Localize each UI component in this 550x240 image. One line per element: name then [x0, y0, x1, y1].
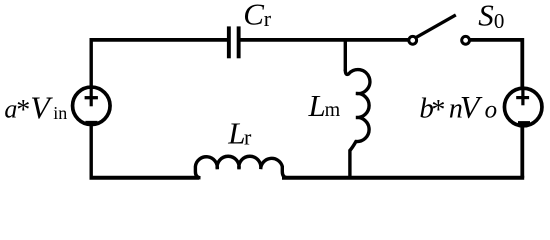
switch S0 blade	[415, 15, 456, 38]
svg-text:L: L	[308, 88, 326, 123]
wire: bottom-left horizontal (corner to inductor Lr)	[90, 176, 200, 180]
svg-text:r: r	[244, 125, 252, 150]
label b*nVo	[419, 89, 497, 126]
voltage source V2 plus sign (crossbar on entering wire)	[521, 88, 524, 105]
voltage source V2 minus sign	[518, 121, 530, 124]
svg-text:S: S	[478, 0, 494, 32]
voltage source V1 plus sign (crossbar on entering wire)	[90, 87, 93, 106]
voltage source V2 (b*nVo) circle	[504, 88, 542, 126]
inductor Lm coil (3 loops)	[345, 70, 370, 151]
label S0	[478, 0, 504, 33]
svg-text:V: V	[460, 89, 483, 125]
svg-text:m: m	[325, 99, 341, 121]
wire: left vertical bottom (source V1 to bottom corner)	[89, 125, 92, 178]
capacitor Cr right plate	[237, 26, 241, 58]
voltage source V1 minus sign	[85, 121, 97, 124]
label Cr	[243, 0, 271, 32]
svg-text:o: o	[485, 97, 498, 124]
svg-text:C: C	[243, 0, 264, 32]
label Lm	[308, 88, 341, 123]
svg-text:*: *	[16, 95, 30, 126]
label a*Vin	[4, 89, 67, 126]
svg-text:V: V	[30, 89, 53, 125]
switch S0 left terminal circle	[409, 36, 417, 44]
svg-text:L: L	[227, 116, 245, 151]
wire: right vertical bottom (source V2 to bottom corner)	[520, 126, 524, 178]
svg-text:0: 0	[494, 9, 505, 33]
wire: Lm branch top stub	[344, 38, 347, 71]
wire: left vertical top (corner to source V1 top)	[89, 38, 92, 86]
wire: right vertical top (corner to source V2 top)	[520, 38, 524, 88]
voltage source V1 (a*Vin) circle	[73, 87, 111, 125]
svg-text:in: in	[53, 103, 67, 123]
wire: top-left horizontal (source V1 to capacitor Cr)	[90, 38, 228, 42]
switch S0 right terminal circle	[462, 36, 470, 44]
wire: top middle (capacitor Cr to switch S0)	[241, 38, 409, 42]
svg-text:r: r	[264, 6, 272, 31]
wire: bottom middle-right horizontal (inductor Lr to right corner)	[282, 176, 524, 180]
capacitor Cr left plate	[227, 26, 231, 58]
svg-text:*: *	[431, 95, 445, 126]
wire: top-right horizontal (switch S0 to corner)	[470, 38, 522, 42]
label Lr	[227, 116, 252, 151]
wire: Lm branch bottom stub	[348, 150, 351, 178]
inductor Lr coil (4 humps)	[195, 156, 287, 178]
